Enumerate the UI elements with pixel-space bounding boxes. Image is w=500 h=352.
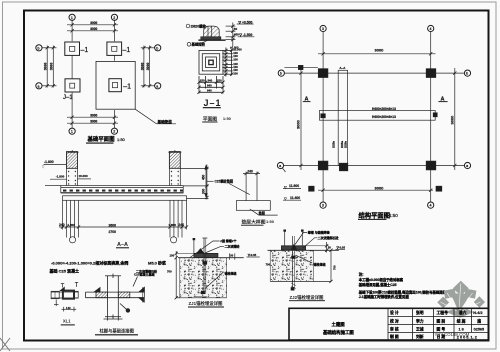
left dimension lines	[46, 46, 48, 88]
svg-text:50: 50	[234, 27, 238, 31]
axis circle b right	[155, 45, 161, 51]
corner X mark	[0, 338, 10, 351]
axis circle a left	[36, 83, 42, 89]
leaf right book	[465, 289, 477, 299]
svg-text:1 8: 1 8	[459, 327, 464, 331]
svg-text:±0.000: ±0.000	[79, 174, 88, 178]
svg-text:日 期: 日 期	[437, 334, 446, 339]
column top cap	[105, 275, 121, 277]
trunk	[456, 303, 460, 314]
grid horizontal line b	[284, 72, 464, 74]
level mark 11.400 line	[283, 199, 301, 201]
svg-text:J-1基础施工时预埋铁件,位置见图: J-1基础施工时预埋铁件,位置见图	[359, 294, 410, 299]
svg-text:本工程±0.000相当于绝对标高: 本工程±0.000相当于绝对标高	[359, 277, 404, 282]
right dim stack line	[232, 23, 234, 47]
axis circle 3 bottom	[320, 202, 326, 208]
leaf far right diamond	[474, 296, 485, 308]
level line wall base left	[50, 178, 67, 180]
axis circle 2 top	[111, 14, 117, 20]
svg-text:140: 140	[66, 306, 71, 310]
top dim line	[318, 53, 436, 55]
right 50 ticks	[229, 253, 231, 259]
left pile circle	[69, 237, 75, 243]
right pile lines	[169, 200, 171, 237]
leader line 1	[133, 277, 138, 287]
svg-text:设 计: 设 计	[390, 310, 399, 315]
leaf left book	[444, 289, 457, 299]
svg-text:制 图: 制 图	[390, 334, 399, 339]
anchor bolt vertical	[203, 238, 205, 294]
svg-text:4: 4	[430, 204, 432, 208]
svg-text:基础结构施工图: 基础结构施工图	[323, 329, 354, 336]
slab left extension	[45, 185, 61, 187]
small beam mark top-left	[284, 66, 318, 68]
leader bolt	[206, 272, 224, 288]
column TL filled	[318, 69, 328, 78]
right pile circle	[171, 237, 177, 243]
svg-text:b: b	[466, 72, 468, 76]
svg-text:a: a	[38, 84, 40, 88]
svg-text:柱脚与基础连接图: 柱脚与基础连接图	[100, 327, 135, 334]
right rect	[74, 291, 78, 298]
rebar dashes in slab	[63, 190, 183, 192]
svg-text:b: b	[38, 46, 40, 50]
bolt shaft in dome	[207, 26, 209, 37]
axis circle 3 top	[320, 25, 326, 31]
vertical 3	[433, 308, 435, 340]
top dimension line 2	[67, 30, 118, 32]
vertical 5	[471, 308, 473, 332]
bolt hook	[291, 287, 295, 290]
svg-text:结 施: 结 施	[457, 318, 466, 323]
svg-text:A–A: A–A	[339, 66, 346, 70]
svg-text:工程号: 工程号	[437, 310, 449, 315]
leader circle 2	[187, 43, 191, 47]
block bottom line	[270, 280, 331, 282]
anchor rod right	[301, 231, 303, 246]
table outer	[289, 308, 488, 340]
hatched joint left	[96, 292, 108, 298]
left pile lines	[66, 200, 68, 237]
axis circle b right	[464, 70, 470, 76]
svg-text:1,800: 1,800	[68, 223, 76, 227]
bottom cut mark right	[436, 186, 442, 191]
svg-text:240: 240	[179, 223, 185, 227]
svg-text:240: 240	[248, 170, 254, 174]
rod line bottom	[51, 297, 79, 299]
svg-text:2: 2	[113, 16, 115, 20]
left bottom tick	[55, 300, 57, 307]
svg-text:校 对: 校 对	[390, 318, 399, 323]
beam right end cap	[143, 287, 145, 303]
leaf top diamond	[453, 281, 469, 296]
svg-text:3000: 3000	[375, 47, 385, 52]
svg-text:700: 700	[167, 270, 172, 274]
beam top flange	[86, 291, 145, 293]
base plate dark	[281, 246, 305, 250]
level -1.800 line	[44, 164, 67, 166]
block sides	[269, 250, 271, 281]
column bottom cap	[105, 316, 121, 318]
leader C25	[229, 184, 250, 195]
footing rect	[236, 201, 270, 211]
wall rebar dots	[68, 171, 179, 185]
anchor bolt vertical	[292, 236, 294, 288]
svg-text:-0.000=-4.200-1.300=0.2相对标高换算,: -0.000=-4.200-1.300=0.2相对标高换算,余同	[51, 260, 128, 266]
svg-text:2M20螺栓: 2M20螺栓	[191, 23, 207, 28]
leader to pad label	[135, 109, 176, 124]
slab inner line	[61, 186, 183, 188]
right wall hatched	[169, 152, 180, 169]
svg-text:b: b	[280, 72, 282, 76]
section A mark right tick	[438, 101, 447, 103]
bolt top dash	[202, 237, 207, 239]
bolt hook	[201, 291, 205, 294]
center sleeve dark	[63, 291, 74, 299]
level line right	[336, 248, 346, 250]
svg-text:基础 C25 混凝土: 基础 C25 混凝土	[49, 268, 80, 274]
svg-text:±0.000: ±0.000	[230, 46, 239, 50]
svg-text:刘新: 刘新	[416, 334, 424, 339]
svg-text:李力: 李力	[415, 318, 424, 323]
horizontal beam right end mark	[433, 113, 437, 117]
column footing J-1 top-left	[65, 42, 80, 55]
svg-text:640: 640	[207, 84, 212, 88]
axis circle 2 bottom	[111, 128, 117, 134]
svg-text:3000: 3000	[449, 115, 454, 125]
right dimension lines	[143, 46, 145, 88]
bottom dim rows	[199, 81, 223, 83]
slab outline	[61, 186, 183, 193]
concrete block stippled	[270, 250, 313, 281]
leader pad	[250, 209, 278, 215]
bottom dim line	[59, 226, 187, 228]
weld flag above	[60, 287, 64, 290]
svg-text:4: 4	[430, 27, 432, 31]
row line 2	[388, 324, 488, 326]
block sides	[179, 258, 181, 298]
column footing J-1 bottom-left	[65, 79, 80, 92]
svg-text:二次浇灌细石砼: 二次浇灌细石砼	[318, 235, 339, 240]
svg-text:3000: 3000	[90, 119, 97, 123]
level leader diagonal	[282, 168, 286, 173]
svg-text:-1.800: -1.800	[56, 175, 65, 179]
plan1 texts	[38, 16, 173, 143]
J-1 label underline	[203, 107, 221, 109]
leader bolt	[296, 255, 313, 263]
svg-text:a: a	[466, 164, 468, 168]
axis circle a left	[277, 162, 283, 168]
top dim line	[245, 172, 247, 177]
leader circle 1	[186, 24, 190, 28]
svg-text:施: 施	[477, 319, 481, 324]
level line right	[247, 256, 260, 258]
axis circle a right	[464, 162, 470, 168]
svg-text:结构平面图: 结构平面图	[359, 210, 390, 219]
svg-text:3000: 3000	[90, 27, 97, 31]
zj2 title underline	[289, 300, 325, 302]
level line -1.500	[238, 36, 255, 38]
leader 1	[190, 241, 220, 258]
svg-text:–1: –1	[123, 84, 131, 91]
axis circle 1 top	[69, 14, 75, 20]
colbase title underline	[95, 334, 138, 336]
vertical beam rect	[338, 70, 347, 165]
pad title underline	[241, 224, 264, 226]
svg-text:b: b	[156, 46, 158, 50]
svg-text:340: 340	[208, 79, 213, 83]
level mark 11.900 line	[283, 188, 301, 190]
axis circle 4 bottom	[428, 202, 434, 208]
bolt embed hatch marks	[291, 283, 296, 286]
plan2 title underline	[358, 218, 387, 220]
svg-text:▽ -1.500: ▽ -1.500	[238, 33, 252, 37]
svg-text:ZJ1锚栓埋设详图: ZJ1锚栓埋设详图	[189, 300, 224, 307]
wedge triangle	[197, 249, 204, 254]
svg-text:2层 螺帽2个: 2层 螺帽2个	[220, 238, 237, 243]
svg-text:11.400: 11.400	[290, 196, 300, 200]
column flange right	[117, 276, 119, 317]
block bottom	[180, 297, 227, 299]
anchor rod left	[193, 239, 195, 254]
bottom dim ticks	[107, 317, 109, 321]
nested square 3	[206, 57, 217, 68]
left dim with arrows	[205, 166, 207, 198]
svg-text:3: 3	[322, 27, 324, 31]
nested square outer	[199, 50, 223, 74]
svg-text:1:50: 1:50	[266, 219, 275, 224]
right dim line	[206, 165, 208, 200]
svg-text:平面图: 平面图	[203, 115, 218, 122]
svg-text:2 0 0 5. 1. 2: 2 0 0 5. 1. 2	[457, 335, 477, 339]
svg-text:3600: 3600	[109, 224, 117, 228]
horizontal beam left end mark	[321, 114, 326, 118]
leader line short col	[201, 40, 208, 43]
top dimension line 1	[67, 24, 118, 26]
svg-text:1: 1	[71, 16, 73, 20]
svg-text:1:50: 1:50	[117, 137, 126, 142]
svg-text:2700: 2700	[109, 230, 117, 234]
right dim line	[454, 68, 456, 170]
vertical 1	[387, 308, 389, 340]
svg-text:C25混凝土基础: C25混凝土基础	[134, 272, 155, 277]
svg-text:1:50: 1:50	[389, 213, 398, 218]
center fan	[451, 294, 471, 313]
svg-text:240: 240	[59, 223, 65, 227]
ground line	[268, 249, 339, 251]
leaf far left diamond	[437, 297, 449, 309]
axis bubble glyphs plan2	[279, 27, 468, 208]
svg-text:a: a	[279, 164, 281, 168]
svg-text:C25素砼垫层: C25素砼垫层	[215, 178, 234, 183]
svg-text:▽: ▽	[42, 165, 45, 169]
column BR filled	[426, 161, 436, 170]
svg-text:XL1: XL1	[63, 318, 71, 323]
column footing J-1 top-right	[107, 42, 122, 55]
svg-text:3000: 3000	[50, 63, 54, 71]
grid stub lines	[71, 20, 73, 41]
J-1 subtitle underline	[202, 121, 217, 123]
beam bottom flange	[86, 297, 145, 299]
base plate	[201, 37, 221, 40]
left wall top cap	[67, 151, 78, 153]
svg-text:螺帽 与垫圈焊接: 螺帽 与垫圈焊接	[308, 229, 330, 234]
vertical beam bottom end filled	[339, 163, 347, 171]
level line +0.500	[237, 23, 254, 25]
ground line	[178, 257, 244, 259]
end wedge bottom	[139, 298, 144, 302]
svg-text:J–1: J–1	[204, 98, 222, 108]
axis circle b left	[36, 45, 42, 51]
left dim	[175, 251, 177, 298]
axis circle b left	[278, 70, 284, 76]
dim extension verticals	[62, 200, 64, 229]
svg-text:ZJ2锚栓埋设详图: ZJ2锚栓埋设详图	[290, 294, 325, 301]
svg-text:1:50: 1:50	[223, 116, 232, 121]
bottom dim line	[318, 189, 433, 191]
pedestal verticals	[245, 176, 247, 200]
concrete block stippled	[180, 258, 227, 298]
svg-text:1,800: 1,800	[169, 223, 177, 227]
svg-text:垫层大样图: 垫层大样图	[242, 218, 266, 225]
svg-text:100: 100	[233, 57, 238, 61]
svg-text:450: 450	[234, 32, 239, 36]
svg-text:2: 2	[113, 130, 115, 134]
svg-text:H400×200×8×13: H400×200×8×13	[372, 107, 396, 111]
bracket dim	[63, 307, 65, 312]
svg-text:150: 150	[200, 79, 205, 83]
column BL filled	[318, 161, 328, 170]
horizontal beam rect	[320, 110, 436, 120]
hook bottom ticks	[195, 296, 207, 298]
bottom dimension line 1	[67, 116, 118, 118]
leader 1	[295, 232, 307, 244]
washer	[291, 256, 295, 259]
svg-text:3000: 3000	[296, 119, 301, 129]
svg-text:A: A	[305, 97, 309, 103]
svg-text:图 别: 图 别	[437, 318, 446, 323]
beam left end cap	[85, 292, 87, 298]
svg-text:11.900: 11.900	[289, 184, 299, 188]
column flange left	[107, 276, 109, 317]
svg-text:3000: 3000	[44, 63, 48, 71]
axis circle 4 top	[428, 25, 434, 31]
column footing center	[109, 79, 122, 92]
left wall lower	[66, 168, 68, 185]
level line wall base right	[78, 178, 92, 180]
svg-text:图 号: 图 号	[437, 326, 446, 331]
bottom dimension line 2	[67, 122, 118, 124]
C25 leader	[207, 180, 214, 182]
grid vertical line 3	[322, 32, 324, 202]
svg-text:3000: 3000	[140, 63, 144, 71]
section A mark left tick	[303, 101, 311, 103]
right wall lower	[168, 168, 170, 185]
svg-text:基础垫层: 基础垫层	[157, 119, 173, 124]
wedge triangle	[291, 244, 297, 250]
svg-text:土建图: 土建图	[332, 321, 346, 328]
svg-text:2I25a: 2I25a	[332, 141, 336, 148]
svg-text:700: 700	[332, 265, 336, 270]
svg-text:700: 700	[266, 262, 271, 266]
bottom diamond	[446, 306, 474, 318]
bottom cut mark left	[309, 186, 315, 191]
svg-text:M5.0 砂浆: M5.0 砂浆	[148, 260, 167, 266]
svg-text:J–1: J–1	[63, 95, 73, 101]
svg-text:张明: 张明	[416, 310, 424, 315]
veins	[441, 284, 481, 313]
svg-text:垫层: 垫层	[259, 210, 266, 215]
nested square 2	[202, 54, 219, 71]
footing band	[63, 196, 187, 201]
row line 1	[388, 316, 488, 318]
svg-text:100: 100	[170, 254, 175, 258]
vertical 2	[412, 308, 414, 340]
rod line top	[51, 291, 79, 293]
right dim 2	[330, 250, 332, 281]
svg-text:锚栓规格: 锚栓规格	[314, 261, 327, 266]
leader 2	[303, 238, 317, 248]
column TR filled	[426, 69, 436, 78]
svg-text:2I25a: 2I25a	[344, 141, 348, 148]
svg-text:N-4/2: N-4/2	[473, 311, 482, 315]
svg-text:450: 450	[202, 174, 206, 180]
top right tick	[76, 282, 78, 287]
title block texts	[323, 310, 484, 339]
base plate dark	[194, 253, 218, 257]
svg-text:3000: 3000	[146, 63, 150, 71]
axis bubble glyphs	[38, 16, 159, 134]
svg-text:640: 640	[207, 89, 212, 93]
slab bottom thick	[61, 192, 183, 194]
svg-text:注:: 注:	[359, 271, 364, 276]
XL1 underline	[61, 324, 75, 326]
left nut rect	[51, 291, 59, 298]
svg-text:02565: 02565	[474, 327, 485, 331]
svg-text:–1: –1	[81, 47, 89, 54]
axis circle 1 bottom	[69, 128, 75, 134]
svg-text:审 核: 审 核	[390, 326, 399, 331]
svg-text:▽-0.05: ▽-0.05	[247, 253, 257, 257]
weld mark left	[94, 288, 100, 293]
plan1 title underline	[86, 142, 114, 144]
svg-text:基础平面图: 基础平面图	[87, 135, 116, 143]
svg-text:3000: 3000	[90, 21, 97, 25]
svg-text:-1.800: -1.800	[44, 160, 54, 164]
right wall top cap	[168, 151, 181, 153]
end wedge top	[139, 287, 145, 292]
grid horizontal line a	[284, 165, 465, 167]
svg-text:潘六: 潘六	[459, 310, 467, 315]
svg-text:–1: –1	[123, 47, 131, 54]
svg-text:H400×200×8×13: H400×200×8×13	[372, 115, 396, 119]
anchor rod left	[284, 231, 286, 246]
svg-text:基础下设100厚C10素砼垫层,每边宽出100,钢柱与基础连: 基础下设100厚C10素砼垫层,每边宽出100,钢柱与基础连接	[358, 289, 447, 294]
right dim 1	[326, 242, 328, 253]
A-A underline	[116, 247, 129, 249]
svg-text:▽ +0.500: ▽ +0.500	[237, 20, 252, 24]
svg-text:基础埋深见图,混凝土C25: 基础埋深见图,混凝土C25	[358, 282, 397, 287]
vertical 4	[453, 308, 455, 340]
dome outline	[204, 26, 220, 37]
row line 3	[388, 331, 488, 333]
svg-text:A: A	[441, 97, 445, 103]
svg-text:150: 150	[217, 79, 222, 83]
svg-text:锚栓规格: 锚栓规格	[225, 270, 238, 275]
svg-text:二次浇灌砼: 二次浇灌砼	[225, 243, 240, 248]
svg-text:1: 1	[71, 130, 73, 134]
svg-text:王诚: 王诚	[416, 326, 424, 331]
